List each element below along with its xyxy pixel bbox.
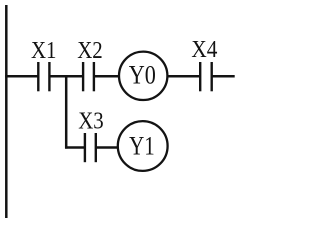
svg-text:X4: X4	[191, 37, 217, 63]
svg-text:Y0: Y0	[129, 60, 156, 90]
svg-text:X2: X2	[77, 38, 103, 64]
svg-text:X1: X1	[31, 38, 57, 64]
svg-text:Y1: Y1	[129, 130, 155, 160]
svg-text:X3: X3	[78, 108, 104, 134]
